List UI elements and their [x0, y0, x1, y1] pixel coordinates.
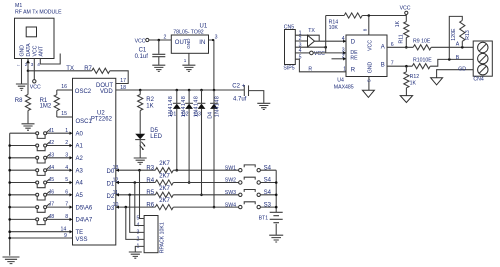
svg-text:A3: A3 [76, 168, 84, 174]
capacitor C1 [135, 40, 166, 65]
switch SW1 [225, 165, 276, 172]
svg-text:7: 7 [391, 60, 394, 66]
svg-text:2: 2 [342, 54, 345, 60]
svg-text:J8: J8 [49, 214, 55, 220]
node A junction [461, 46, 464, 49]
svg-text:SW1: SW1 [225, 165, 236, 171]
wire TX net [28, 66, 92, 72]
wire U2 OSC2 pin 16 [57, 84, 73, 90]
node bus J5 junction [8, 181, 11, 184]
svg-text:GD: GD [458, 67, 466, 73]
resistor R5 2K7 [113, 186, 239, 198]
svg-text:D1: D1 [170, 112, 177, 118]
wire GD to ground [437, 67, 474, 78]
wire RPACK pin 1 to ground [135, 246, 144, 251]
svg-text:SW2: SW2 [225, 178, 236, 184]
svg-text:D: D [351, 40, 356, 46]
svg-text:3: 3 [31, 62, 34, 67]
jumper J8 [10, 214, 73, 225]
svg-text:J5: J5 [49, 177, 55, 183]
svg-text:R5: R5 [146, 190, 154, 196]
resistor R7 [84, 66, 110, 73]
svg-text:10: 10 [113, 202, 119, 208]
ground at BT1 [269, 235, 283, 242]
svg-text:U4: U4 [337, 78, 344, 84]
node R14 junction [324, 46, 327, 49]
svg-text:2: 2 [65, 140, 68, 146]
svg-text:0.1uf: 0.1uf [135, 54, 149, 60]
svg-text:6: 6 [65, 189, 68, 195]
ground at RPACK pin 1 [129, 252, 142, 258]
node bus J3 junction [8, 157, 11, 160]
node bus TE junction [8, 230, 11, 233]
wire RPACK pin 2 to D3 row [126, 207, 144, 239]
svg-text:1N4148: 1N4148 [215, 96, 221, 117]
svg-text:4: 4 [342, 36, 345, 42]
resistor R14 10K [326, 13, 407, 31]
ground at D5 [134, 158, 147, 164]
svg-text:VCC: VCC [400, 5, 411, 11]
svg-text:J1: J1 [49, 128, 55, 134]
svg-text:MAX485: MAX485 [334, 85, 354, 91]
node DATA/TX junction [27, 70, 30, 73]
jumper J2 [10, 140, 73, 151]
svg-text:VCC: VCC [135, 38, 146, 44]
wire B row to CN4 [430, 55, 473, 66]
resistor pack RP1 RPACK 10K1 [137, 216, 166, 254]
svg-text:7: 7 [65, 202, 68, 208]
wire TE pin 14 [10, 226, 73, 233]
svg-text:PT2262: PT2262 [91, 116, 113, 122]
svg-text:SW3: SW3 [225, 190, 236, 196]
svg-text:S4: S4 [264, 190, 272, 196]
svg-text:VSS: VSS [76, 237, 88, 243]
jumper J4 [10, 165, 73, 176]
wire R7 to U2 DOUT pin 17 [110, 71, 128, 84]
node switch bus junction y194.8 [275, 194, 278, 197]
svg-text:4.7uf: 4.7uf [233, 97, 247, 103]
ground at left bus [3, 133, 20, 263]
svg-text:D3: D3 [194, 112, 201, 118]
wire U1 OUT pin 2 [149, 35, 171, 41]
svg-text:2K7: 2K7 [159, 174, 170, 180]
arrow into M1 pin 2 [26, 60, 30, 64]
connector CN5 SIP5 [283, 24, 301, 71]
svg-text:A: A [381, 44, 385, 50]
wire U4 GND pin 5 [366, 77, 371, 91]
wire VCC to U4 DE pin 3 [313, 48, 346, 55]
svg-text:A4: A4 [76, 181, 84, 187]
svg-text:13: 13 [113, 165, 119, 171]
svg-text:RF AM Tx MODULE: RF AM Tx MODULE [15, 10, 62, 16]
svg-text:8: 8 [65, 214, 68, 220]
svg-text:8: 8 [363, 28, 368, 31]
svg-text:R6: R6 [146, 203, 154, 209]
svg-text:VCC: VCC [314, 51, 325, 57]
svg-text:1: 1 [65, 128, 68, 134]
node bus J4 junction [8, 169, 11, 172]
ground at R12 [400, 96, 412, 103]
svg-text:R: R [308, 67, 312, 73]
ground at R8 [22, 124, 35, 130]
svg-text:16: 16 [61, 84, 67, 90]
svg-text:BT1: BT1 [259, 215, 269, 221]
svg-text:2K7: 2K7 [159, 161, 170, 167]
wire M1 GND pin 1 [21, 59, 23, 84]
resistor R3 2K7 [113, 161, 239, 173]
module M1 pin numbers [16, 62, 40, 67]
wire U1 GND pin 1 [184, 53, 189, 65]
jumper J6 [10, 189, 73, 200]
wire A row to CN4 [431, 42, 473, 48]
svg-text:TE: TE [76, 230, 84, 236]
wire U4 B pin 7 [387, 60, 412, 66]
svg-text:RE: RE [350, 56, 358, 62]
jumper J3 [10, 152, 73, 163]
ground at U4 GND [362, 90, 374, 97]
connector CN4 terminal block [473, 41, 492, 83]
power VCC at M1 pin 3 [30, 80, 41, 91]
svg-text:GND: GND [368, 62, 374, 74]
svg-text:VCC: VCC [30, 85, 41, 91]
svg-text:11: 11 [113, 190, 118, 196]
svg-text:3: 3 [342, 48, 345, 54]
switch SW3 [225, 190, 276, 197]
svg-text:J7: J7 [49, 202, 55, 208]
power VCC at CN5 pin 4 [295, 51, 325, 57]
resistor R13 120E [449, 16, 471, 59]
svg-text:9: 9 [64, 233, 67, 239]
battery BT1 [259, 212, 283, 235]
module M1 body [15, 18, 55, 58]
svg-text:J3: J3 [49, 152, 55, 158]
resistor R2 [138, 89, 155, 134]
svg-text:1K: 1K [146, 103, 153, 109]
wire M1 DATA pin 2 [27, 59, 29, 71]
svg-text:R3: R3 [146, 166, 154, 172]
diode D3 1N4148 [194, 89, 206, 196]
svg-text:C2 +: C2 + [232, 84, 245, 90]
svg-text:A: A [456, 42, 460, 48]
svg-text:S4: S4 [264, 178, 272, 184]
switch SW2 [225, 177, 276, 184]
diode D4 1N4148 [207, 89, 220, 209]
svg-text:D4\A7: D4\A7 [76, 218, 93, 224]
svg-text:LED: LED [150, 134, 162, 140]
svg-text:TX: TX [66, 66, 74, 72]
wire CN5 pin 3 to R14 net [295, 46, 325, 48]
wire M1 ANT pin 4 antenna stub [40, 54, 60, 65]
wire switch bus to battery [275, 170, 277, 212]
wire VSS pin 9 [10, 233, 73, 239]
svg-text:R4: R4 [146, 178, 154, 184]
ground at GD [431, 78, 443, 85]
svg-text:A0: A0 [76, 131, 84, 137]
svg-text:1K: 1K [395, 20, 401, 27]
svg-text:1M2: 1M2 [40, 104, 52, 110]
node switch bus junction y207.1 [275, 206, 278, 209]
svg-text:RPACK 10K1: RPACK 10K1 [159, 222, 165, 253]
resistor R8 [15, 71, 31, 124]
diode D2 1N4148 [181, 89, 193, 184]
svg-text:R: R [351, 67, 356, 73]
diode D1 1N4148 [168, 89, 181, 172]
wire U4 A pin 6 [387, 42, 413, 48]
node riser junction R6 row [125, 206, 128, 209]
svg-text:R7: R7 [84, 66, 92, 72]
svg-text:J6: J6 [49, 189, 55, 195]
svg-text:1: 1 [184, 58, 187, 63]
wire buffer output to U4 pin 4 [315, 36, 347, 43]
svg-text:B: B [381, 63, 385, 69]
node riser junction R5 row [128, 194, 131, 197]
node riser junction R4 row [134, 181, 137, 184]
svg-text:TX: TX [308, 28, 315, 34]
capacitor C2 [232, 84, 263, 103]
svg-text:R13: R13 [465, 30, 471, 40]
svg-text:A2: A2 [76, 156, 84, 162]
svg-text:OSC2: OSC2 [75, 89, 92, 95]
wire U2 VDD pin 18 rail [116, 89, 245, 91]
svg-text:2K7: 2K7 [159, 186, 170, 192]
resistor R10 10E [412, 58, 432, 69]
svg-text:IN: IN [199, 40, 205, 46]
svg-text:14: 14 [61, 226, 67, 232]
node switch bus junction y182.5 [275, 181, 278, 184]
svg-text:U2: U2 [97, 110, 105, 116]
svg-text:15: 15 [61, 111, 67, 117]
node U4 VCC junction [368, 14, 371, 17]
power VCC at U1 OUT [135, 38, 149, 44]
jumper J1 [10, 128, 73, 139]
wire U4 RE pin 2 stub [332, 54, 347, 61]
svg-text:A1: A1 [76, 144, 84, 150]
svg-text:VDD: VDD [100, 89, 113, 95]
regulator U1 78L05 body [171, 24, 208, 54]
module M1 RF AM Tx MODULE label [15, 3, 62, 16]
svg-text:R1010E: R1010E [413, 58, 432, 64]
svg-text:J2: J2 [49, 140, 55, 146]
svg-text:ANT: ANT [39, 45, 45, 56]
svg-text:5: 5 [65, 177, 68, 183]
wire RPACK pin 4 to D1 row [135, 183, 144, 226]
wire CN5 pin 1 TX to U4 D [295, 35, 319, 41]
node bus J6 junction [8, 194, 11, 197]
resistor R11 1K [395, 20, 409, 47]
wire RPACK pin 3 to D2 row [130, 195, 144, 233]
svg-text:DATA: DATA [26, 43, 32, 57]
svg-text:D4: D4 [207, 112, 213, 119]
svg-text:VCC: VCC [368, 40, 374, 51]
svg-text:CN4: CN4 [473, 77, 483, 83]
wire U1 IN pin 3 [209, 35, 218, 90]
switch SW4 [225, 202, 276, 209]
svg-text:S3: S3 [264, 202, 272, 208]
wire RPACK pin 5 to D0 row [140, 170, 145, 218]
jumper J7 [10, 202, 73, 213]
wire CN5 pin 2 to buffer input [295, 40, 307, 42]
svg-text:R12: R12 [410, 74, 420, 80]
svg-text:3: 3 [65, 152, 68, 158]
node bus J8 junction [8, 218, 11, 221]
svg-text:17: 17 [120, 78, 126, 84]
svg-text:SIP5: SIP5 [283, 66, 294, 72]
node bus J2 junction [8, 144, 11, 147]
node bus VSS junction [8, 237, 11, 240]
ground at C2 [257, 103, 270, 109]
svg-text:1K: 1K [410, 80, 417, 86]
ground at M1 pin 1 [16, 84, 27, 90]
svg-text:12: 12 [113, 178, 119, 184]
svg-text:2: 2 [164, 35, 167, 41]
svg-text:120E: 120E [451, 28, 457, 41]
node C1 junction [158, 39, 161, 42]
ground at C1 [152, 65, 165, 71]
node riser junction R3 row [138, 169, 141, 172]
svg-text:R8: R8 [15, 98, 23, 104]
wire to U4 VCC pin 8 [363, 16, 369, 36]
jumper J5 [10, 177, 73, 188]
svg-text:←: ← [16, 62, 21, 67]
resistor R12 1K [404, 66, 419, 95]
IC U2 PT2262 body [73, 78, 127, 245]
svg-text:R2: R2 [146, 97, 154, 103]
svg-text:10K: 10K [329, 25, 339, 31]
wire M1 VCC pin 3 [33, 59, 35, 80]
node R12 junction [405, 65, 408, 68]
resistor R9 10E [413, 39, 431, 50]
buffer TX triangle [308, 28, 316, 47]
svg-text:B: B [456, 55, 460, 61]
svg-text:2K7: 2K7 [159, 198, 170, 204]
svg-text:R11: R11 [399, 34, 405, 43]
svg-text:5: 5 [366, 79, 371, 82]
svg-text:GND: GND [186, 38, 191, 49]
ground at U1 pin 1 [182, 65, 195, 71]
power VCC top right [400, 5, 411, 21]
led D5 [135, 128, 162, 157]
resistor R4 2K7 [113, 174, 239, 186]
svg-text:6: 6 [391, 42, 394, 48]
svg-text:GND: GND [20, 45, 26, 57]
svg-text:3: 3 [215, 35, 218, 41]
resistor R1 [40, 90, 60, 117]
svg-text:4: 4 [37, 62, 40, 67]
svg-text:M1: M1 [15, 3, 22, 9]
wire R14 vertical to DE row [325, 16, 327, 53]
node bus J7 junction [8, 206, 11, 209]
IC U4 MAX485 body [334, 35, 387, 91]
node B junction [448, 58, 451, 61]
resistor R6 2K7 [113, 198, 239, 210]
svg-text:D2: D2 [182, 112, 189, 118]
svg-text:D5\A6: D5\A6 [76, 205, 93, 211]
wire U2 OSC1 pin 15 [57, 111, 73, 117]
svg-text:R9 10E: R9 10E [413, 39, 431, 45]
svg-text:A5: A5 [76, 193, 84, 199]
wire CN5 pin 5 R net to U4 pin 1 [295, 59, 346, 72]
svg-text:S4: S4 [264, 165, 272, 171]
svg-text:SW4: SW4 [225, 202, 236, 208]
svg-text:C1: C1 [139, 48, 147, 54]
svg-text:J4: J4 [49, 165, 55, 171]
svg-text:4: 4 [65, 165, 68, 171]
svg-text:OSC1: OSC1 [76, 119, 93, 125]
node R11 A row junction [405, 46, 408, 49]
